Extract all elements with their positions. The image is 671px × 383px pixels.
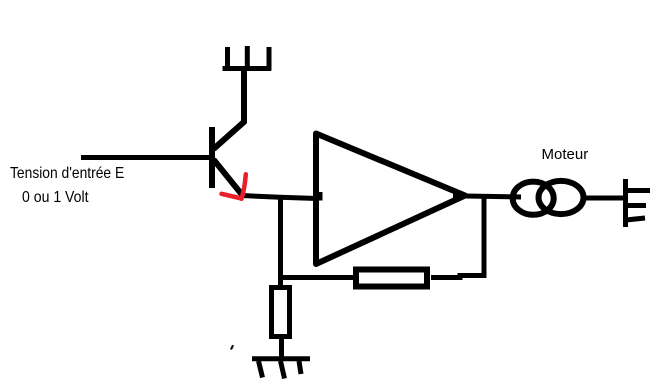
transistor Q1: [212, 121, 245, 196]
ground right: [626, 179, 651, 227]
node wire input drop: [278, 196, 283, 287]
wire motor to ground: [586, 196, 626, 201]
wire collector stem: [241, 67, 247, 123]
wire to ground: [279, 337, 284, 359]
ground bottom: [252, 359, 310, 379]
wire output: [466, 196, 521, 197]
stray mark: [231, 346, 232, 349]
resistor R1 feedback: [356, 270, 427, 287]
label 0 ou 1 Volt: [22, 189, 89, 207]
wire emitter to amplifier: [242, 196, 317, 199]
motor M1: [513, 181, 584, 215]
wire feedback left: [278, 275, 356, 280]
red arrow marker: [222, 174, 246, 199]
label Tension d'entrée E: [10, 165, 124, 183]
wire feedback right: [431, 276, 486, 278]
label Moteur: [542, 146, 589, 163]
op-amp U1: [316, 134, 469, 265]
power supply symbol: [223, 46, 272, 71]
wire base input: [81, 155, 214, 160]
resistor R2: [272, 288, 290, 337]
wire output to feedback: [482, 197, 487, 278]
